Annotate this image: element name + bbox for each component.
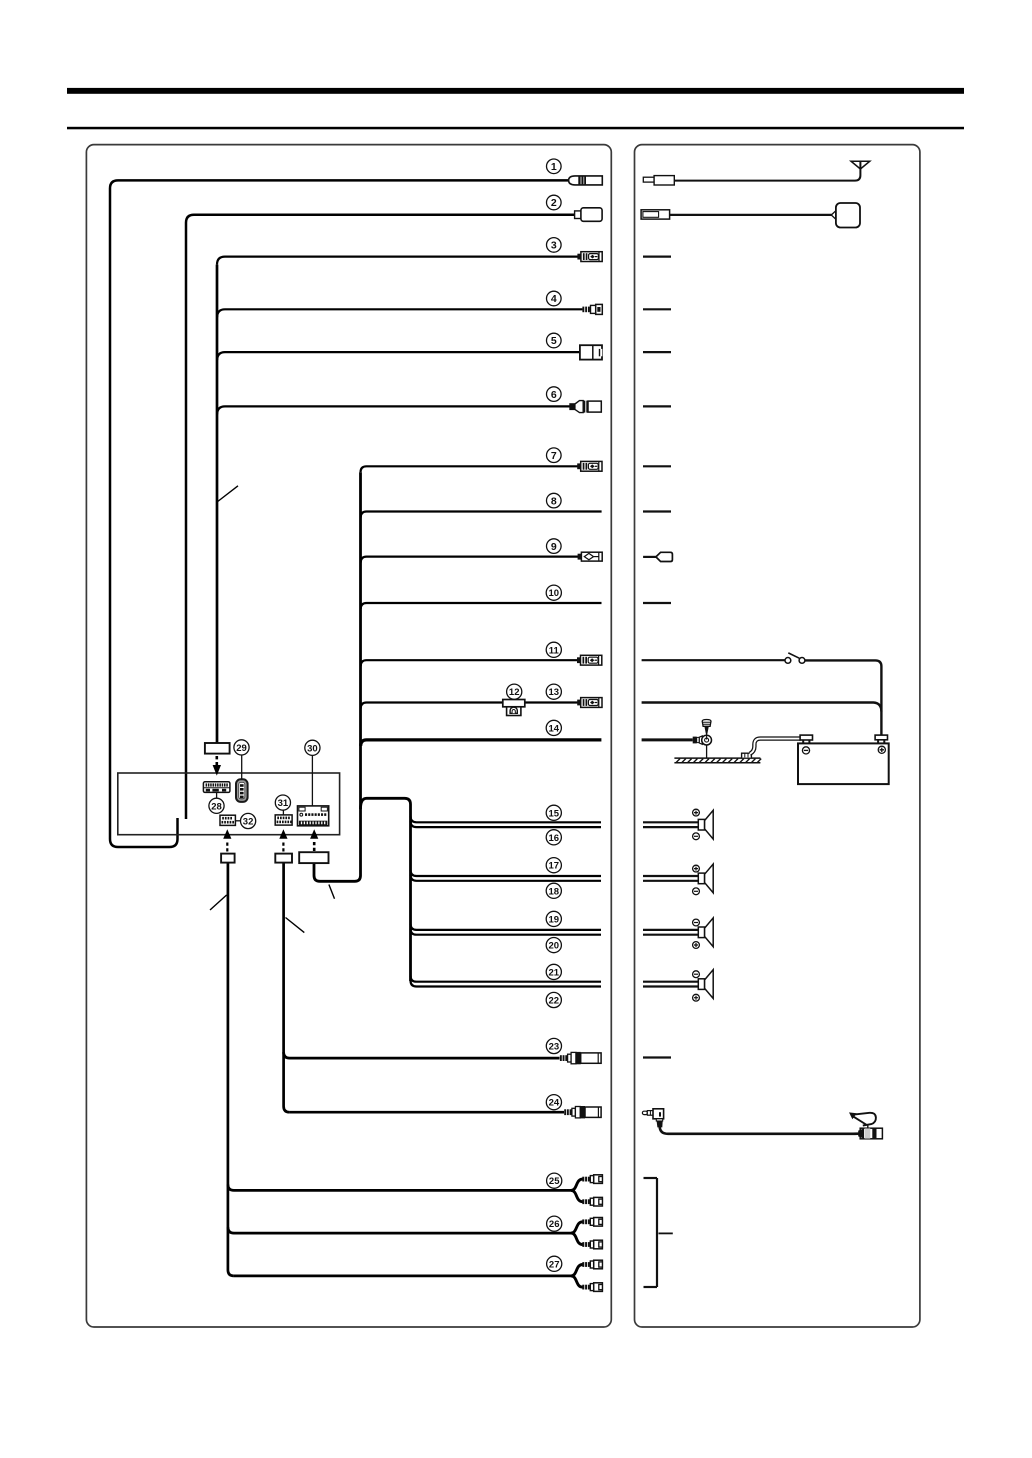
svg-text:32: 32 bbox=[243, 817, 254, 828]
label 14 bbox=[546, 720, 561, 735]
wire from connector 29 to label bbox=[241, 755, 243, 780]
microphone cable bbox=[660, 1127, 859, 1134]
leader line at bundle 23-24 bbox=[286, 918, 305, 933]
connector 5 (box connector) bbox=[580, 345, 602, 359]
Y-split wire 26 bbox=[571, 1222, 583, 1245]
minus mark fl bbox=[693, 833, 700, 840]
wire 20 bbox=[411, 929, 602, 935]
label 18 bbox=[546, 883, 561, 898]
ring terminal bbox=[699, 735, 711, 745]
wire 6 bbox=[217, 406, 570, 414]
connector 9 (blade terminal sleeve) bbox=[578, 552, 603, 561]
wire 11 bbox=[361, 660, 580, 666]
microphone plug (row 24) bbox=[642, 1109, 663, 1128]
wire 8 bbox=[361, 512, 602, 518]
battery bbox=[798, 735, 889, 784]
wire 11 to switch bbox=[642, 659, 785, 661]
svg-text:19: 19 bbox=[549, 914, 560, 925]
label 22 bbox=[546, 992, 561, 1007]
svg-text:30: 30 bbox=[307, 743, 318, 754]
stub wire 3 bbox=[643, 256, 671, 258]
svg-text:17: 17 bbox=[549, 861, 560, 872]
wire 15 bbox=[411, 816, 602, 822]
label 13 bbox=[546, 684, 561, 699]
wire junction to 15-22 harness bbox=[361, 798, 411, 981]
svg-text:27: 27 bbox=[549, 1259, 560, 1270]
wire 26 bbox=[228, 1227, 572, 1233]
label 29 bbox=[234, 740, 249, 755]
svg-text:14: 14 bbox=[549, 723, 560, 734]
microphone clip bbox=[849, 1112, 876, 1128]
chassis clamp bbox=[742, 753, 752, 757]
stub wire 23 bbox=[643, 1057, 671, 1059]
plus mark fr bbox=[693, 865, 700, 872]
svg-text:22: 22 bbox=[549, 996, 560, 1007]
connector 27a bbox=[582, 1260, 602, 1269]
minus mark rr bbox=[693, 971, 700, 978]
wire 19 bbox=[411, 924, 602, 930]
label 12 bbox=[507, 684, 522, 699]
leader line at bundle 25-27 bbox=[210, 895, 227, 910]
wire 14 bbox=[361, 740, 602, 746]
svg-text:25: 25 bbox=[549, 1176, 560, 1187]
wire 5 bbox=[217, 352, 580, 360]
svg-text:7: 7 bbox=[551, 450, 557, 462]
svg-text:5: 5 bbox=[551, 335, 557, 347]
bracket for rows 25-27 bbox=[644, 1178, 673, 1287]
blade terminal (row 9) bbox=[643, 552, 672, 561]
wire from switch to battery plus bbox=[805, 660, 882, 735]
speaker wire pair 19/20 bbox=[643, 930, 699, 935]
label 20 bbox=[546, 938, 561, 953]
wire 27 bbox=[234, 1275, 572, 1278]
ring terminal ferrule bbox=[693, 737, 697, 744]
wire 16 bbox=[411, 821, 602, 827]
svg-text:31: 31 bbox=[278, 798, 289, 809]
top rule thick bbox=[67, 88, 964, 94]
label 25 bbox=[547, 1173, 562, 1188]
svg-text:26: 26 bbox=[549, 1219, 560, 1230]
antenna jack socket (row 1) bbox=[643, 176, 674, 185]
connector 26b bbox=[582, 1240, 602, 1249]
microphone body bbox=[858, 1128, 882, 1139]
wire from connector box 3 up to harness bbox=[314, 864, 361, 882]
svg-text:18: 18 bbox=[549, 886, 560, 897]
speaker rear-left bbox=[682, 918, 713, 947]
speaker wire pair 15/16 bbox=[643, 822, 699, 827]
svg-text:2: 2 bbox=[551, 197, 557, 209]
svg-text:11: 11 bbox=[549, 645, 560, 656]
label 10 bbox=[546, 585, 561, 600]
svg-text:20: 20 bbox=[549, 941, 560, 952]
label 24 bbox=[546, 1095, 561, 1110]
plus mark rl bbox=[693, 942, 700, 949]
svg-text:16: 16 bbox=[549, 833, 560, 844]
svg-text:8: 8 bbox=[551, 495, 557, 507]
stub wire 5 bbox=[643, 351, 671, 353]
connector box 2 (below, for 23-24) bbox=[275, 854, 292, 863]
connector 25a bbox=[582, 1175, 602, 1184]
connector 27b bbox=[582, 1283, 602, 1292]
plus mark rr bbox=[693, 994, 700, 1001]
connector 29 (vertical port on unit) bbox=[236, 779, 248, 802]
wire 4 bbox=[217, 309, 582, 317]
connector box 1 (below, for 25-27) bbox=[221, 854, 235, 863]
label 31 bbox=[275, 795, 290, 810]
label 5 bbox=[547, 333, 562, 348]
wire bundle 23-24 vertical bbox=[284, 864, 290, 1113]
wire from connector 28 to label bbox=[216, 792, 218, 798]
wire 24 bbox=[290, 1111, 564, 1114]
label 19 bbox=[546, 911, 561, 926]
wire 1 bbox=[110, 180, 569, 847]
wire 13 to battery plus bbox=[642, 703, 882, 712]
chassis ground plate bbox=[674, 758, 761, 763]
connector box 3 (below, harness 7-22) bbox=[299, 852, 328, 863]
speaker front-left bbox=[682, 810, 713, 839]
connector 28 (ISO connector on unit) bbox=[203, 782, 230, 793]
wire 3 bbox=[217, 257, 578, 265]
stub wire 7 bbox=[643, 465, 671, 467]
speaker rear-right bbox=[682, 970, 713, 999]
label 28 bbox=[209, 798, 224, 813]
wire ring terminal to chassis bbox=[706, 745, 708, 758]
wire bundle 7-14 vertical bbox=[359, 472, 362, 875]
label 23 bbox=[546, 1038, 561, 1053]
wire 14 to ground bolt bbox=[642, 738, 693, 741]
speaker wire pair 21/22 bbox=[643, 982, 699, 987]
stub wire 6 bbox=[643, 405, 671, 407]
leader line at bundle 3-6 bbox=[218, 486, 238, 502]
svg-text:4: 4 bbox=[551, 293, 557, 305]
Y-split wire 25 bbox=[571, 1179, 583, 1202]
wire 17 bbox=[411, 870, 602, 876]
connector plug 2 bbox=[575, 208, 603, 222]
wire from connector 32 to label bbox=[235, 820, 240, 822]
stub wire 4 bbox=[643, 308, 671, 310]
wire 10 bbox=[361, 603, 602, 609]
wire 2 bbox=[186, 215, 576, 819]
svg-text:21: 21 bbox=[549, 967, 560, 978]
svg-text:13: 13 bbox=[549, 687, 560, 698]
label 11 bbox=[546, 642, 561, 657]
connector 26a bbox=[582, 1218, 602, 1227]
label 4 bbox=[547, 291, 562, 306]
label 6 bbox=[547, 387, 562, 402]
svg-text:1: 1 bbox=[551, 161, 557, 173]
wire to antenna bbox=[674, 161, 860, 180]
svg-text:15: 15 bbox=[549, 808, 560, 819]
wire 25 bbox=[228, 1184, 572, 1190]
label 27 bbox=[547, 1256, 562, 1271]
label 7 bbox=[547, 448, 562, 463]
label 3 bbox=[547, 238, 562, 253]
wire 7 bbox=[361, 466, 579, 472]
label 2 bbox=[547, 195, 562, 210]
connector 24 (RCA plug large) bbox=[564, 1106, 601, 1118]
label 32 bbox=[241, 813, 256, 828]
connector 11 (spade terminal) bbox=[577, 655, 602, 665]
dashed arrow up 1 bbox=[223, 829, 231, 851]
svg-text:3: 3 bbox=[551, 240, 557, 252]
svg-text:23: 23 bbox=[549, 1042, 560, 1053]
connector 32 (socket on unit) bbox=[220, 815, 235, 825]
label 1 bbox=[547, 159, 562, 174]
wire 9 bbox=[361, 557, 578, 563]
connector 31 (socket on unit) bbox=[275, 815, 292, 825]
label 16 bbox=[546, 830, 561, 845]
antenna symbol bbox=[851, 161, 870, 169]
right panel frame bbox=[635, 145, 920, 1327]
label 17 bbox=[546, 858, 561, 873]
stub wire 10 bbox=[643, 602, 671, 604]
svg-text:29: 29 bbox=[236, 743, 247, 754]
dashed arrow up 3 bbox=[310, 829, 318, 851]
fuse holder 12 bbox=[503, 700, 525, 716]
left panel frame bbox=[86, 145, 611, 1327]
wire from connector 30 to label bbox=[311, 755, 313, 806]
Y-split wire 27 bbox=[571, 1265, 583, 1288]
wire from connector 31 to label bbox=[282, 810, 284, 815]
wire 23 bbox=[284, 1052, 560, 1058]
mounting screw bbox=[702, 720, 711, 740]
display unit connector (row 2) bbox=[641, 210, 670, 219]
svg-text:10: 10 bbox=[549, 588, 560, 599]
connector 6 (RCA plug) bbox=[569, 401, 601, 413]
connector 3 (spade terminal) bbox=[577, 252, 602, 262]
svg-text:12: 12 bbox=[509, 687, 520, 698]
svg-text:9: 9 bbox=[551, 541, 557, 553]
wire 18 bbox=[411, 875, 602, 881]
svg-text:6: 6 bbox=[551, 389, 557, 401]
label 15 bbox=[546, 805, 561, 820]
stub wire 8 bbox=[643, 511, 671, 513]
label 21 bbox=[546, 964, 561, 979]
connector 7 (spade terminal) bbox=[577, 461, 602, 471]
connector 23 (RCA plug large) bbox=[560, 1052, 601, 1064]
speaker wire pair 17/18 bbox=[643, 876, 699, 881]
gps module plug arrow bbox=[831, 210, 836, 219]
head unit rear panel rectangle bbox=[118, 773, 340, 835]
leader line at harness junction bbox=[329, 885, 335, 899]
ignition switch bbox=[785, 653, 805, 663]
svg-text:28: 28 bbox=[211, 801, 222, 812]
label 8 bbox=[547, 493, 562, 508]
wire 22 bbox=[411, 981, 602, 987]
wire bundle 3-6 vertical bbox=[216, 265, 219, 743]
speaker front-right bbox=[682, 864, 713, 893]
plus mark fl bbox=[693, 809, 700, 816]
minus mark fr bbox=[693, 888, 700, 895]
label 9 bbox=[547, 539, 562, 554]
dashed arrow down into unit bbox=[213, 756, 221, 776]
label 30 bbox=[305, 740, 320, 755]
wire bundle 25-27 vertical bbox=[228, 864, 234, 1276]
label 26 bbox=[547, 1216, 562, 1231]
top rule thin bbox=[67, 127, 964, 130]
wire 13 bbox=[361, 703, 581, 709]
wire to gps module bbox=[670, 214, 832, 216]
dashed arrow up 2 bbox=[279, 829, 287, 851]
connector plug 1 (antenna plug) bbox=[569, 176, 603, 185]
minus mark rl bbox=[693, 919, 700, 926]
connector 30 (main harness socket on unit) bbox=[298, 806, 329, 826]
strap chassis to battery minus bbox=[750, 739, 801, 754]
connector 13 (spade terminal) bbox=[577, 698, 602, 708]
gps module box bbox=[836, 203, 860, 228]
connector 25b bbox=[582, 1197, 602, 1206]
svg-text:24: 24 bbox=[549, 1098, 560, 1109]
connector 4 (bullet terminal) bbox=[582, 304, 602, 314]
wire 21 bbox=[411, 976, 602, 982]
connector housing box above (bundle 3-6) bbox=[205, 743, 230, 754]
